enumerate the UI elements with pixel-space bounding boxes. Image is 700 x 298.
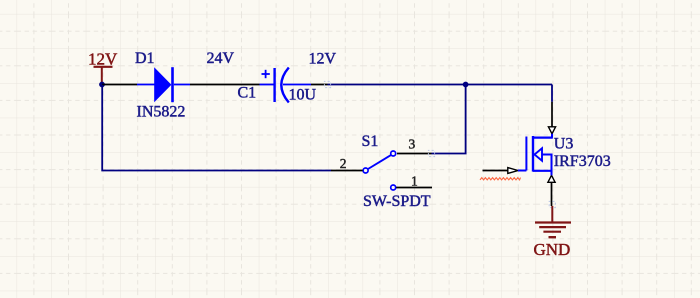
svg-text:2: 2: [340, 156, 347, 171]
switch S1: [331, 151, 432, 190]
vertex marker: [549, 201, 555, 207]
power port 12V: [88, 50, 118, 85]
pin 1: [391, 185, 396, 190]
vertex marker: [324, 81, 330, 87]
wire (black, D1 cathode to C1): [190, 84, 260, 86]
svg-text:SW-SPDT: SW-SPDT: [363, 193, 431, 210]
wire (navy, junction B down to switch pin 3): [432, 85, 466, 154]
junction A: [99, 82, 105, 88]
svg-text:24V: 24V: [207, 50, 235, 67]
svg-text:3: 3: [409, 136, 416, 151]
wire (navy, corner down to U3 drain pin): [551, 85, 553, 102]
wire (black stub right of C1): [311, 84, 328, 86]
svg-text:10U: 10U: [289, 87, 317, 104]
svg-text:IRF3703: IRF3703: [554, 153, 611, 170]
svg-text:12V: 12V: [88, 50, 118, 69]
vertex marker: [428, 150, 434, 156]
svg-text:1: 1: [411, 173, 418, 188]
capacitor C1: [260, 68, 312, 103]
svg-text:C1: C1: [238, 85, 257, 102]
diode D1: [137, 67, 190, 102]
svg-text:IN5822: IN5822: [137, 104, 186, 121]
gate pin (black with hollow arrow): [483, 170, 508, 172]
wire (navy 12V rail to junction B and corner): [328, 84, 553, 86]
wire (black, junction A to D1 anode): [102, 84, 137, 86]
junction B: [463, 82, 469, 88]
svg-text:S1: S1: [362, 133, 379, 150]
svg-text:D1: D1: [135, 50, 155, 67]
ground: [535, 206, 571, 237]
lever: [368, 155, 391, 169]
wire (navy, switch pin 2 to left rail): [102, 85, 331, 171]
transistor U3: [483, 102, 556, 206]
symbol body (blue): [551, 134, 553, 138]
source pin (black with hollow arrow): [548, 175, 555, 182]
drain pin (black with hollow arrow): [551, 102, 553, 127]
pin 2: [363, 168, 368, 173]
svg-text:GND: GND: [534, 240, 571, 259]
pin 3: [397, 153, 432, 155]
ERC squiggle under gate: [480, 178, 521, 180]
svg-text:U3: U3: [554, 136, 574, 153]
svg-text:12V: 12V: [309, 51, 337, 68]
